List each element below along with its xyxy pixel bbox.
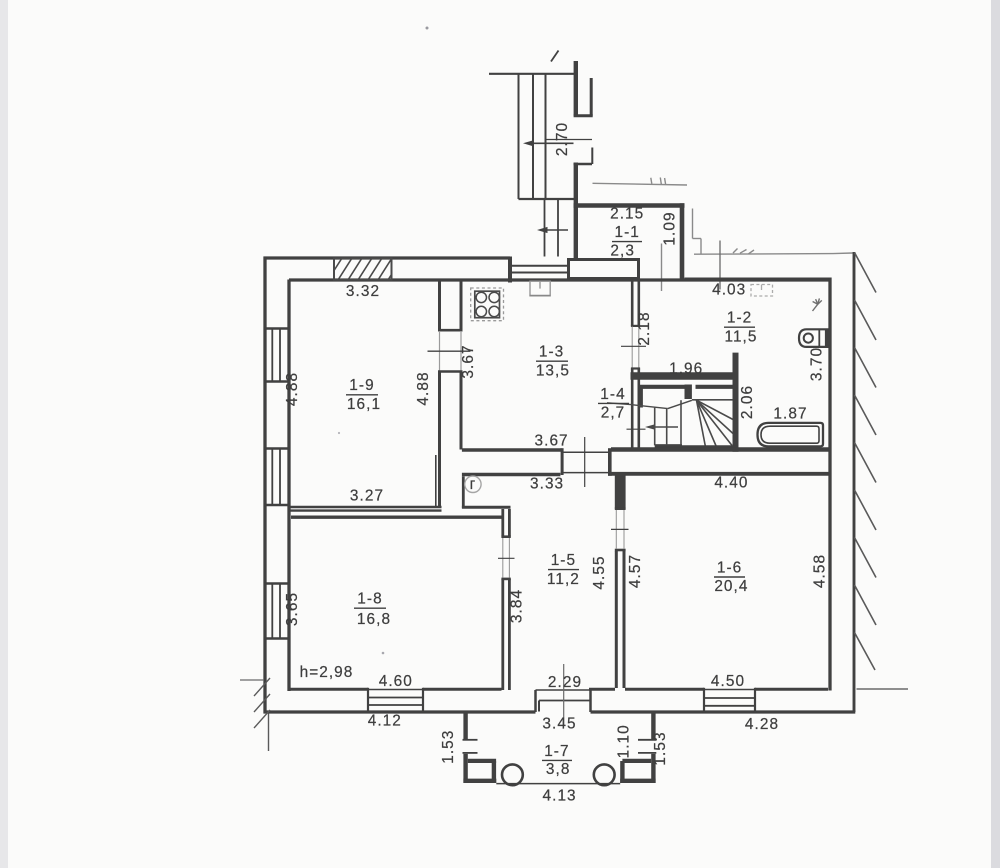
- svg-text:3.45: 3.45: [542, 716, 576, 733]
- exterior stair (top) upper landing line: [489, 73, 576, 75]
- porch floor edge line: [496, 783, 620, 785]
- wall 1-9/1-8 line L1: [289, 506, 442, 509]
- tap symbol in bathroom: [813, 298, 822, 311]
- vestibule 1-1 east wall: [680, 203, 685, 281]
- porch left pier top wall: [468, 759, 496, 763]
- svg-text:1.09: 1.09: [662, 211, 679, 245]
- gas stove body: [475, 291, 500, 318]
- svg-text:4.88: 4.88: [415, 371, 432, 405]
- jog bar left of kitchen door: [561, 448, 564, 475]
- svg-text:1.10: 1.10: [615, 724, 632, 758]
- window 4.50/4.28 lines: [704, 689, 755, 691]
- porch left pier bottom wall: [463, 779, 496, 783]
- kitchen door right jamb: [608, 448, 612, 476]
- svg-text:3.33: 3.33: [530, 476, 564, 493]
- svg-text:4.88: 4.88: [284, 372, 301, 406]
- top wall pier between door and vestibule: [569, 260, 639, 279]
- kitchen east door cap lower: [631, 367, 640, 369]
- divider door light lines: [502, 538, 504, 578]
- svg-text:4.28: 4.28: [745, 716, 779, 733]
- svg-text:1-1: 1-1: [614, 224, 639, 241]
- svg-text:3.65: 3.65: [284, 592, 301, 626]
- boiler symbol in kitchen: [530, 281, 551, 296]
- kitchen south wall: [462, 448, 562, 452]
- neighbour outline thin line lower / eaves line: [694, 253, 833, 256]
- porch left pier outer wall upper: [463, 714, 467, 740]
- divider wall 1-8/1-5 pair lower: [501, 579, 504, 690]
- nook bottom wall line: [462, 506, 511, 509]
- exterior stair tread line 3: [545, 74, 547, 199]
- window W2 glazing lines: [271, 449, 273, 505]
- porch door sill thin line: [536, 689, 591, 691]
- stair left compartment top edge: [639, 385, 685, 389]
- door cap upper: [438, 329, 463, 332]
- divider 1-5/1-6 door tick: [611, 528, 629, 530]
- porch door threshold step: [539, 700, 591, 702]
- door opening light jamb lines: [439, 331, 441, 371]
- svg-text:2.70: 2.70: [554, 122, 571, 156]
- svg-text:3.84: 3.84: [509, 589, 526, 623]
- divider 1-5/1-6 door light lines: [615, 510, 617, 549]
- bathtub: [758, 423, 824, 447]
- svg-text:1-9: 1-9: [349, 377, 374, 394]
- ventilation dashed box near 4.03: [751, 285, 773, 297]
- svg-text:г: г: [470, 476, 477, 493]
- porch right pier outer wall lower: [651, 754, 655, 783]
- svg-text:4.57: 4.57: [627, 554, 644, 588]
- svg-text:4.40: 4.40: [714, 475, 748, 492]
- svg-text:4.50: 4.50: [711, 673, 745, 690]
- svg-text:16,8: 16,8: [357, 611, 391, 628]
- niche bottom wall: [574, 114, 593, 117]
- kitchen door sill thin line: [563, 451, 609, 453]
- svg-text:1-7: 1-7: [544, 743, 569, 760]
- svg-text:1-3: 1-3: [539, 344, 564, 361]
- left scan edge band: [0, 0, 8, 868]
- vestibule 1-1 north wall: [574, 203, 685, 208]
- pier cap below W2: [264, 504, 291, 507]
- gas stove dashed outline: [471, 288, 504, 321]
- stair west wall pair: [631, 369, 634, 448]
- bathroom north wall: [685, 278, 832, 282]
- house top wall inner line: [289, 278, 832, 281]
- dimension tick of door: [428, 350, 471, 352]
- stray pen mark above stair wall: [551, 51, 559, 62]
- wall 1-9/1-3 left line upper: [438, 280, 441, 332]
- svg-text:3.32: 3.32: [346, 283, 380, 300]
- gas meter circle: [465, 476, 481, 493]
- divider wall 1-5/1-6 pair lower: [615, 551, 618, 688]
- window 4.60/4.12 jambs: [367, 688, 369, 714]
- dimension extension line between 3.67 and 3.33: [584, 437, 586, 487]
- wall 1-9/1-8 inner line L3: [291, 516, 502, 519]
- svg-text:11,5: 11,5: [724, 329, 757, 346]
- scan speck 1: [426, 27, 429, 30]
- porch right pier bottom wall: [620, 779, 655, 783]
- bathroom west wall 2.06: [733, 353, 739, 452]
- stair winder fan rays: [697, 400, 706, 447]
- divider 1-5/1-6 door cap lower: [615, 549, 626, 552]
- right exterior wall outer line: [853, 252, 856, 712]
- neighbour outline thin line upper: [593, 183, 688, 185]
- dimension line for 1.09: [719, 241, 721, 290]
- stair down arrow: [652, 426, 678, 428]
- thin partition line left of pair: [435, 455, 437, 507]
- thin ground line right of SE corner: [857, 688, 909, 690]
- thin tick line left of SW wall: [240, 679, 264, 681]
- svg-text:4.60: 4.60: [379, 673, 413, 690]
- svg-text:2.29: 2.29: [548, 674, 582, 691]
- divider wall 1-8/1-5 pair upper: [501, 509, 504, 537]
- stair winder diagonal tread: [668, 400, 692, 408]
- niche right wall: [590, 78, 593, 116]
- house top wall door jamb: [508, 257, 512, 283]
- tick above top wall: [661, 244, 663, 292]
- neighbour outline step: [692, 209, 694, 239]
- svg-text:16,1: 16,1: [347, 396, 381, 413]
- stove burners: [476, 292, 499, 317]
- svg-text:4.58: 4.58: [812, 554, 829, 588]
- exterior stair tread line 1: [518, 74, 520, 199]
- porch right pier top wall: [622, 759, 651, 763]
- divider door cap upper: [501, 535, 510, 538]
- door cap lower: [438, 370, 463, 373]
- dimension tick for 2.70: [545, 139, 592, 141]
- svg-text:1.87: 1.87: [773, 406, 807, 423]
- kitchen east door cap upper: [631, 325, 640, 327]
- porch door left jog: [534, 690, 537, 712]
- wall 1-9/1-3 right line upper: [460, 280, 463, 332]
- small ticks on neighbour line: [651, 178, 652, 184]
- left exterior wall outer line: [263, 257, 266, 714]
- stair bottom tread line: [655, 444, 682, 446]
- dimension extension line 2.29/3.45: [563, 664, 565, 726]
- svg-text:1.53: 1.53: [440, 730, 457, 764]
- svg-text:1-5: 1-5: [551, 552, 576, 569]
- wall A south of stairs and bathroom: [611, 447, 832, 451]
- svg-text:1-4: 1-4: [600, 386, 625, 403]
- left wall pier cap under top corner: [264, 327, 291, 330]
- exterior stair tread line 2: [532, 74, 534, 199]
- stair tread verticals: [654, 408, 656, 446]
- SW corner ground hatch strokes: [254, 678, 270, 696]
- niche left wall above vestibule: [574, 61, 578, 116]
- porch left pier window 1.53 cap lines: [463, 739, 478, 741]
- svg-text:h=2,98: h=2,98: [300, 664, 354, 681]
- porch right pier window 1.10 cap lines: [638, 739, 656, 741]
- porch right pier outer wall upper: [651, 714, 655, 740]
- svg-text:4.55: 4.55: [591, 555, 608, 589]
- entrance steps by house door: [544, 199, 546, 257]
- porch column left: [502, 764, 523, 785]
- stair label leader line: [607, 403, 668, 409]
- stair hall wall 1.96: [631, 372, 739, 379]
- svg-text:1.96: 1.96: [669, 361, 703, 378]
- scribble marks on eaves line: [733, 249, 738, 254]
- divider 1-5/1-6 door cap upper: [615, 507, 626, 510]
- porch door right jamb: [589, 690, 592, 712]
- corridor wall (1-5 north west part): [462, 473, 561, 476]
- svg-text:13,5: 13,5: [536, 363, 570, 380]
- svg-text:3,8: 3,8: [546, 761, 571, 778]
- chimney hatch block in top wall: [328, 258, 402, 280]
- porch left pier outer wall lower: [463, 754, 467, 783]
- svg-text:4.03: 4.03: [712, 282, 746, 299]
- porch right pier inner wall: [620, 761, 624, 783]
- svg-text:20,4: 20,4: [714, 578, 748, 595]
- svg-text:11,2: 11,2: [547, 571, 580, 588]
- kitchen east door light lines: [631, 327, 633, 369]
- divider door tick: [498, 557, 515, 559]
- wall 1-9/1-3 right line lower: [460, 372, 463, 450]
- window W1 glazing lines: [271, 329, 273, 381]
- SW corner vertical thin line: [268, 714, 270, 752]
- pier cap above W3: [264, 582, 291, 585]
- stair chamber bottom wall thickening: [655, 445, 738, 447]
- svg-text:3.27: 3.27: [350, 488, 384, 505]
- ground hatch strokes along right wall: [855, 253, 877, 293]
- kitchen east door tick: [621, 345, 646, 347]
- svg-text:2.06: 2.06: [739, 385, 756, 419]
- vestibule 1-1 west wall: [574, 163, 578, 259]
- svg-text:1.53: 1.53: [652, 731, 669, 765]
- svg-text:3.70: 3.70: [809, 347, 826, 381]
- wall B north of room 1-6: [611, 472, 832, 476]
- pier cap above W2: [264, 447, 291, 450]
- svg-text:4.13: 4.13: [543, 788, 577, 805]
- window 4.60/4.12 lines: [368, 689, 423, 691]
- svg-text:1-2: 1-2: [727, 310, 752, 327]
- stair middle bar: [685, 385, 692, 400]
- svg-text:2,3: 2,3: [610, 243, 635, 260]
- wall stub left of vestibule door: [574, 163, 593, 166]
- right exterior wall inner line: [828, 278, 831, 691]
- lower sill thin line of kitchen door: [561, 472, 609, 474]
- divider wall 1-5/1-6 solid upper: [615, 472, 626, 509]
- kitchen east wall pair upper: [631, 281, 634, 326]
- right scan edge band: [991, 0, 1000, 868]
- tick crossing stair west wall: [627, 428, 646, 430]
- stair right compartment top edge: [696, 385, 735, 389]
- pier cap below W1: [264, 380, 291, 383]
- house top wall outer line: [264, 256, 511, 259]
- bottom wall outer line west part: [264, 710, 536, 713]
- pier cap below W3: [264, 637, 291, 640]
- svg-text:4.12: 4.12: [368, 713, 402, 730]
- porch column right: [594, 764, 615, 785]
- kitchen SW corner jog bar: [462, 476, 465, 508]
- porch left pier inner wall: [492, 761, 496, 783]
- entrance arrow at house door: [545, 229, 568, 231]
- exterior stair direction arrow: [530, 142, 574, 144]
- svg-text:2.15: 2.15: [610, 206, 644, 223]
- wall 1-9/1-3 left line lower: [438, 372, 441, 507]
- left exterior wall inner line: [287, 280, 290, 692]
- stair first tread edge: [692, 399, 733, 401]
- bottom wall inner line segments: [289, 688, 368, 691]
- bottom wall outer line east part: [591, 710, 856, 713]
- svg-text:3.67: 3.67: [535, 433, 569, 450]
- svg-text:1-6: 1-6: [717, 559, 742, 576]
- toilet: [799, 329, 828, 347]
- svg-text:1-8: 1-8: [357, 591, 382, 608]
- scan speck 3: [338, 432, 340, 434]
- window W3 glazing lines: [271, 584, 273, 639]
- wall 1-9/1-8 line L2: [289, 509, 442, 511]
- svg-text:2,7: 2,7: [601, 405, 626, 422]
- divider door cap lower: [501, 578, 510, 581]
- svg-text:3.67: 3.67: [460, 344, 477, 378]
- stair left compartment stub: [639, 387, 643, 408]
- svg-text:2.18: 2.18: [636, 311, 653, 345]
- window 4.50/4.28 jambs: [703, 688, 705, 714]
- house entry door threshold lines: [512, 265, 567, 267]
- scan speck 2: [382, 652, 385, 655]
- exterior stair bottom line: [519, 198, 576, 200]
